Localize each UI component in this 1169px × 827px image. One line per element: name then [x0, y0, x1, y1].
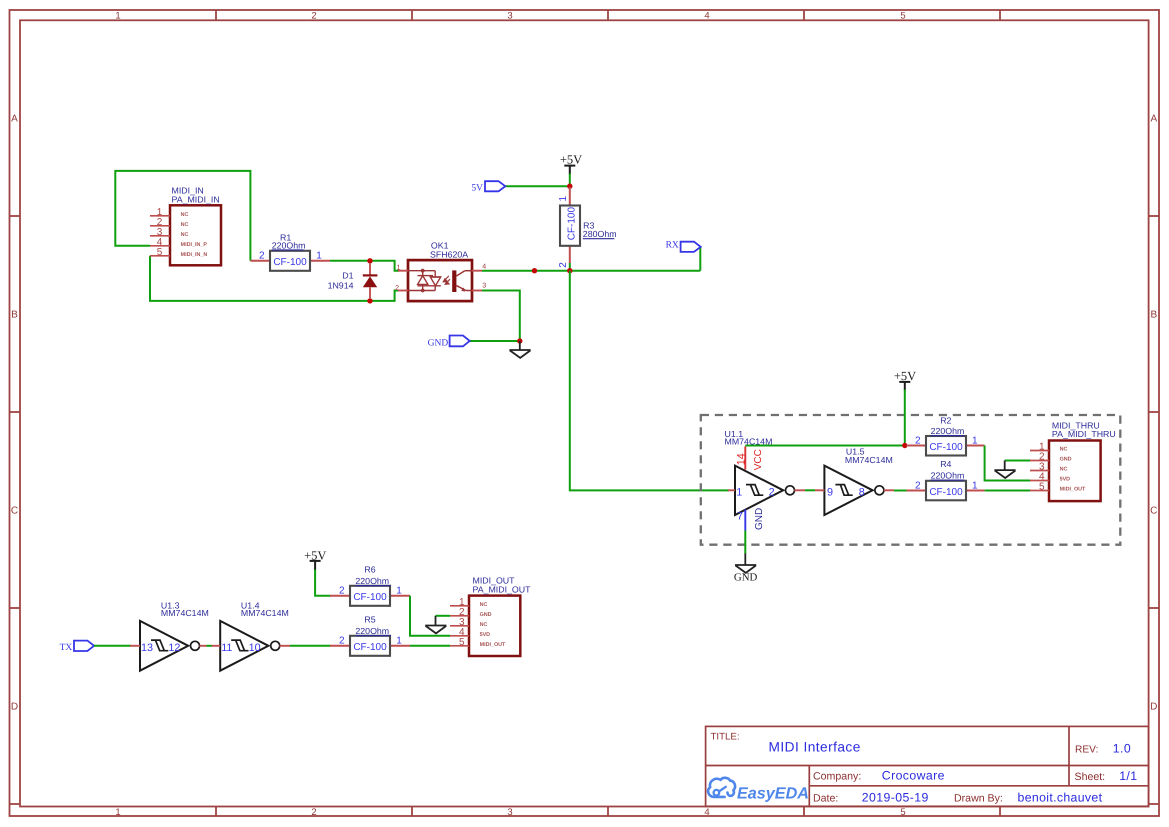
svg-text:10: 10: [249, 642, 261, 654]
netport TX: [60, 641, 94, 653]
svg-text:1: 1: [396, 585, 402, 596]
wire MIDI_OUT pin2 to ground: [436, 615, 451, 617]
svg-text:1/1: 1/1: [1119, 769, 1137, 783]
op-amp U1.5 schmitt inverter: [815, 466, 894, 515]
op-amp U1.1 schmitt inverter: [728, 447, 805, 531]
frame ruler ticks left: [10, 216, 21, 804]
svg-text:MM74C14M: MM74C14M: [725, 437, 773, 447]
svg-text:4: 4: [704, 807, 709, 818]
wire U1.1 GND pin down: [744, 531, 746, 554]
node B junction (D1 bottom): [367, 298, 372, 303]
node GND junction: [517, 338, 522, 343]
svg-text:NC: NC: [1060, 467, 1068, 473]
svg-text:13: 13: [141, 642, 153, 654]
frame column labels top: [115, 10, 905, 21]
diode D1: [363, 263, 378, 299]
wire U1.1 out to U1.5 in: [805, 489, 815, 491]
svg-text:NC: NC: [1060, 447, 1068, 453]
connector P1 MIDI_IN: [150, 205, 221, 265]
wire MIDI_THRU pin2 to ground: [1005, 460, 1030, 462]
svg-text:REV:: REV:: [1075, 744, 1098, 755]
MIDI_THRU pin names: [1060, 447, 1086, 493]
svg-text:D: D: [11, 702, 18, 713]
svg-text:PA_MIDI_OUT: PA_MIDI_OUT: [473, 585, 532, 595]
ground symbol (MIDI_OUT gnd): [425, 616, 446, 634]
wire U1.1 VCC to +5V to R2: [745, 445, 905, 447]
connector P2 MIDI_OUT: [450, 596, 520, 656]
svg-text:1.0: 1.0: [1113, 741, 1131, 755]
svg-text:CF-100: CF-100: [929, 442, 963, 453]
svg-text:D: D: [1150, 702, 1157, 713]
wire RX riser: [699, 247, 701, 271]
svg-text:CF-100: CF-100: [353, 592, 387, 603]
svg-text:benoit.chauvet: benoit.chauvet: [1018, 791, 1103, 805]
svg-text:8: 8: [859, 486, 865, 498]
svg-text:2: 2: [769, 486, 775, 498]
EasyEDA logo cloud: [708, 778, 735, 797]
svg-text:CF-100: CF-100: [353, 642, 387, 653]
svg-text:RX: RX: [666, 241, 679, 251]
svg-text:GND: GND: [754, 508, 765, 530]
frame ruler ticks right: [1149, 216, 1159, 804]
frame column labels bottom: [115, 807, 905, 818]
svg-text:5VD: 5VD: [480, 632, 491, 638]
svg-text:MM74C14M: MM74C14M: [161, 608, 209, 618]
svg-text:1: 1: [115, 10, 120, 21]
svg-text:SFH620A: SFH620A: [430, 249, 468, 259]
wire 5V flag to +5V node: [505, 185, 570, 187]
netport 5V: [471, 181, 505, 193]
title block outline: [706, 726, 1149, 806]
svg-text:EasyEDA: EasyEDA: [737, 784, 809, 802]
resistor R3 leads: [569, 187, 571, 263]
svg-text:1: 1: [736, 486, 742, 498]
resistor R2 body: [926, 436, 966, 456]
optocoupler OK1 body: [408, 260, 472, 301]
svg-text:9: 9: [827, 486, 833, 498]
svg-text:3: 3: [507, 10, 512, 21]
wire R3 pin2 to RX node: [569, 263, 571, 271]
resistor R1 body: [270, 251, 310, 271]
svg-text:2019-05-19: 2019-05-19: [862, 791, 929, 805]
frame row labels left: [11, 114, 18, 713]
resistor R1 leads: [250, 260, 330, 262]
svg-text:CF-100: CF-100: [273, 257, 307, 268]
svg-text:220Ohm: 220Ohm: [931, 426, 965, 436]
svg-text:1: 1: [396, 635, 402, 646]
svg-text:4: 4: [704, 10, 709, 21]
connector P3 MIDI_THRU: [1030, 441, 1101, 502]
svg-text:Drawn By:: Drawn By:: [954, 793, 1003, 805]
svg-text:5: 5: [459, 637, 465, 648]
svg-text:GND: GND: [480, 612, 492, 618]
svg-text:R6: R6: [364, 565, 375, 575]
svg-text:5: 5: [900, 10, 905, 21]
svg-text:220Ohm: 220Ohm: [355, 626, 389, 636]
resistor R5 leads: [330, 645, 410, 647]
svg-text:MIDI Interface: MIDI Interface: [769, 740, 861, 755]
svg-text:Crocoware: Crocoware: [882, 768, 945, 782]
op-amp U1.4 schmitt inverter: [212, 621, 291, 671]
MIDI_THRU pin numbers 1-5: [1039, 442, 1045, 493]
op-amp U1.3 schmitt inverter: [130, 621, 207, 671]
svg-text:14: 14: [736, 453, 748, 465]
wire U1.5 out to R4: [894, 490, 907, 492]
MIDI_OUT pin numbers 1-5: [459, 597, 465, 648]
svg-text:R5: R5: [364, 615, 375, 625]
OK1 light arrows: [443, 276, 450, 284]
wire +5V to R6: [315, 570, 330, 596]
svg-text:12: 12: [168, 642, 180, 654]
svg-text:D1: D1: [342, 270, 353, 280]
svg-text:TITLE:: TITLE:: [711, 732, 740, 743]
svg-text:2: 2: [558, 262, 569, 268]
netport GND: [428, 336, 470, 349]
svg-text:1: 1: [558, 196, 569, 202]
svg-text:VCC: VCC: [753, 449, 764, 470]
svg-text:1: 1: [972, 435, 978, 446]
wire GND flag to junction: [470, 340, 520, 342]
svg-text:PA_MIDI_THRU: PA_MIDI_THRU: [1052, 429, 1116, 439]
wire MIDI_IN pin4 to R1 (left loop): [115, 171, 250, 261]
wire U1.3 out to U1.4 in: [207, 645, 212, 647]
ground symbol (MIDI_THRU gnd): [994, 461, 1015, 479]
svg-text:5: 5: [900, 807, 905, 818]
svg-text:3: 3: [507, 807, 512, 818]
svg-text:2: 2: [259, 250, 265, 261]
svg-text:B: B: [1150, 310, 1157, 321]
svg-text:1: 1: [115, 807, 120, 818]
OK1 phototransistor: [452, 270, 472, 292]
svg-text:A: A: [11, 114, 18, 125]
wire TX to U1.3: [94, 645, 131, 647]
svg-text:1N914: 1N914: [328, 281, 354, 291]
OK1 pin stubs: [398, 271, 482, 291]
svg-text:2: 2: [339, 635, 345, 646]
svg-text:2: 2: [915, 480, 921, 491]
node RX junction: [567, 268, 572, 273]
svg-text:2: 2: [339, 585, 345, 596]
node junction mid: [532, 268, 537, 273]
svg-text:MIDI_OUT: MIDI_OUT: [1060, 487, 1086, 493]
svg-text:2: 2: [311, 10, 316, 21]
node A junction (D1 top): [367, 258, 372, 263]
svg-text:Sheet:: Sheet:: [1075, 771, 1106, 783]
wire OK1 pin3 to GND: [482, 291, 520, 342]
svg-text:2: 2: [311, 807, 316, 818]
svg-text:3: 3: [482, 283, 486, 290]
svg-text:C: C: [11, 506, 18, 517]
OK1 internal LEDs: [408, 271, 441, 291]
svg-text:NC: NC: [480, 602, 488, 608]
wire OK1 pin4 to RX / R3 row: [482, 270, 700, 272]
resistor R6 leads: [330, 595, 410, 597]
ground symbol (U1.1 pin7): [735, 554, 756, 573]
frame row labels right: [1150, 114, 1157, 713]
node +5V junction: [567, 184, 572, 189]
wire net down to U1.1 input: [570, 271, 729, 491]
svg-text:A: A: [1150, 114, 1157, 125]
svg-text:2: 2: [395, 285, 399, 292]
resistor R5 body: [350, 636, 390, 656]
resistor R2 leads: [907, 445, 985, 447]
power flag +5V (midi out): [304, 549, 326, 571]
MIDI_IN pin numbers 1-5: [157, 207, 163, 258]
svg-text:2: 2: [915, 435, 921, 446]
MIDI_OUT pin names: [480, 602, 506, 648]
svg-text:1: 1: [316, 250, 322, 261]
svg-text:Company:: Company:: [813, 770, 861, 782]
svg-text:NC: NC: [480, 622, 488, 628]
MIDI_IN pin names: [181, 212, 208, 258]
netport RX: [666, 241, 701, 252]
frame ruler ticks bottom: [216, 807, 1000, 817]
svg-text:1: 1: [972, 480, 978, 491]
svg-text:4: 4: [482, 264, 486, 271]
svg-text:C: C: [1150, 506, 1157, 517]
svg-text:+5V: +5V: [894, 369, 916, 383]
svg-text:MIDI_OUT: MIDI_OUT: [480, 642, 506, 648]
svg-text:5: 5: [1039, 482, 1045, 493]
wire R1 pin1 to node A / OK1 pin1: [330, 261, 399, 271]
power flag +5V (thru block): [894, 369, 916, 446]
svg-text:7: 7: [737, 510, 743, 522]
frame ruler ticks top: [216, 10, 1000, 20]
OK1 internal LED junction dots: [421, 269, 425, 273]
wire R4 pin1 to MIDI_THRU pin5: [985, 490, 1030, 492]
resistor R4 body: [926, 481, 966, 501]
svg-text:MIDI_IN_N: MIDI_IN_N: [181, 252, 208, 258]
svg-text:MM74C14M: MM74C14M: [845, 455, 893, 465]
svg-text:280Ohm: 280Ohm: [583, 229, 617, 239]
svg-text:1: 1: [397, 264, 401, 271]
svg-text:5VD: 5VD: [1060, 477, 1071, 483]
svg-text:11: 11: [221, 642, 232, 654]
svg-text:R4: R4: [940, 459, 951, 469]
svg-text:GND: GND: [734, 572, 758, 584]
svg-text:MIDI_IN_P: MIDI_IN_P: [181, 242, 208, 248]
svg-text:GND: GND: [1060, 457, 1072, 463]
svg-text:NC: NC: [181, 212, 189, 218]
svg-text:GND: GND: [428, 339, 449, 349]
svg-text:5V: 5V: [471, 183, 483, 193]
svg-text:220Ohm: 220Ohm: [272, 240, 306, 250]
wire R6 pin1 to MIDI_OUT pin4: [410, 596, 450, 636]
svg-text:TX: TX: [60, 643, 73, 653]
wire MIDI_IN pin5 to D1 anode / OK1 pin2: [150, 256, 399, 301]
wire R2 pin1 to MIDI_THRU pin4: [985, 446, 1030, 481]
node VCC junction: [902, 443, 907, 448]
svg-text:CF-100: CF-100: [929, 487, 963, 498]
svg-text:NC: NC: [181, 232, 189, 238]
svg-text:MM74C14M: MM74C14M: [241, 608, 289, 618]
svg-text:B: B: [11, 310, 18, 321]
resistor R4 leads: [907, 490, 985, 492]
resistor R3 body: [560, 206, 580, 246]
wire R5 pin1 to MIDI_OUT pin5: [410, 645, 450, 647]
svg-text:+5V: +5V: [560, 152, 582, 166]
svg-text:220Ohm: 220Ohm: [355, 576, 389, 586]
ground symbol (OK1 emitter): [509, 341, 530, 358]
svg-text:PA_MIDI_IN: PA_MIDI_IN: [172, 194, 220, 204]
svg-text:5: 5: [157, 247, 163, 258]
svg-text:R2: R2: [940, 416, 951, 426]
svg-text:CF-100: CF-100: [567, 207, 578, 241]
power flag +5V (top): [560, 152, 582, 186]
svg-text:220Ohm: 220Ohm: [931, 470, 965, 480]
svg-text:NC: NC: [181, 222, 189, 228]
dashed group box: [701, 415, 1121, 545]
wire U1.4 out to R5: [290, 645, 331, 647]
resistor R6 body: [350, 586, 390, 606]
OK1 pin numbers: [395, 264, 486, 292]
svg-text:Date:: Date:: [813, 793, 838, 805]
